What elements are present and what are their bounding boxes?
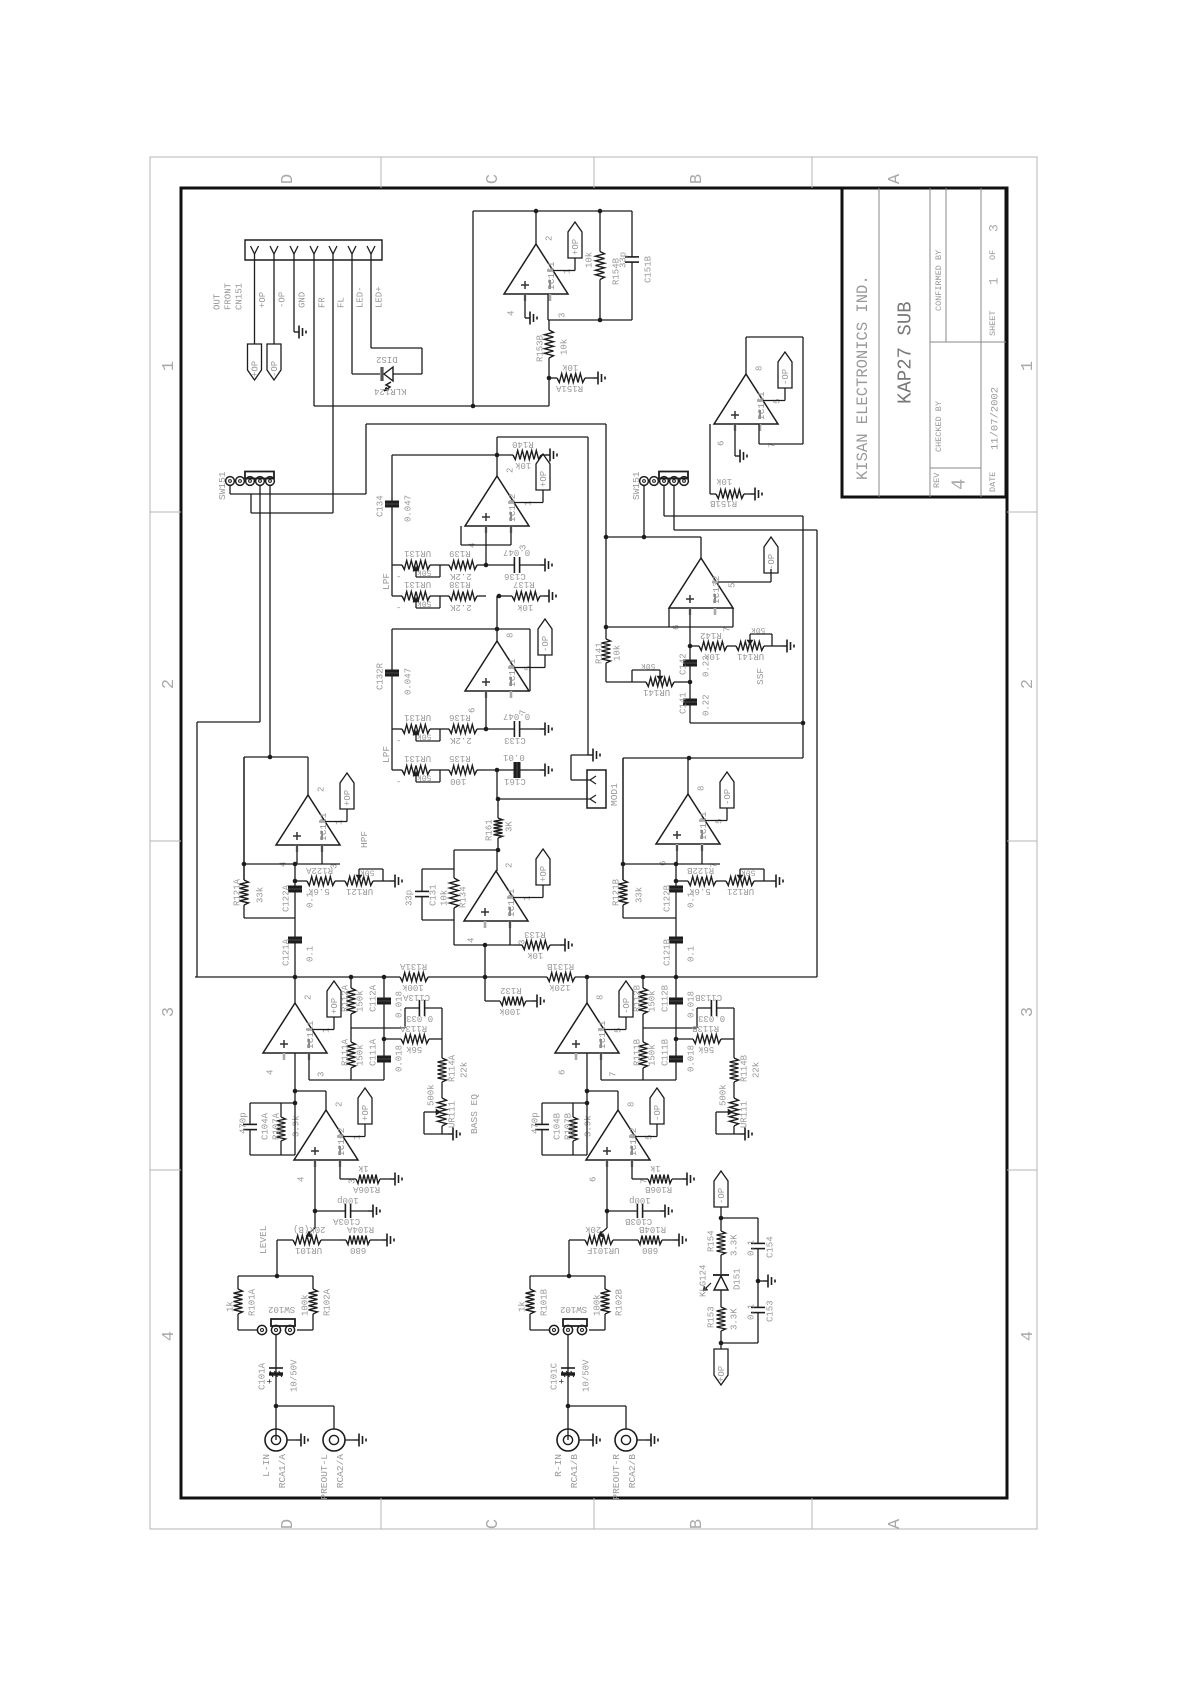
svg-text:100k: 100k — [301, 1294, 311, 1316]
svg-text:UR131: UR131 — [404, 753, 431, 763]
svg-text:2: 2 — [160, 679, 179, 689]
junction — [642, 535, 647, 540]
svg-text:LPF: LPF — [381, 573, 392, 590]
svg-text:56k: 56k — [698, 1044, 714, 1054]
pin — [290, 246, 298, 254]
svg-text:+OP: +OP — [330, 998, 340, 1014]
svg-text:C112A: C112A — [369, 984, 379, 1012]
wire — [571, 779, 587, 781]
svg-text:C: C — [484, 174, 503, 184]
resistor R113A 56k — [384, 1038, 401, 1040]
svg-text:-OP: -OP — [541, 636, 551, 652]
connector R-IN RCA1/B — [557, 1429, 579, 1451]
svg-text:+OP: +OP — [258, 292, 268, 308]
capacitor C111A 0.018 — [383, 1039, 385, 1056]
wire — [601, 1079, 676, 1081]
wire — [510, 526, 512, 545]
svg-text:RCA2/B: RCA2/B — [627, 1454, 638, 1489]
resistor — [622, 758, 624, 880]
svg-text:10k: 10k — [560, 339, 570, 355]
svg-text:C121A: C121A — [282, 938, 292, 966]
wire — [623, 917, 676, 919]
ground — [390, 880, 395, 882]
svg-text:8: 8 — [596, 995, 606, 1000]
wire — [351, 1027, 405, 1029]
wire — [339, 1160, 341, 1179]
wire — [383, 880, 390, 882]
wire — [668, 608, 670, 627]
wire — [350, 1027, 352, 1029]
svg-text:D151: D151 — [733, 1268, 743, 1290]
wire — [625, 1406, 627, 1429]
wire — [498, 798, 587, 800]
wire — [586, 1103, 588, 1155]
svg-text:R135: R135 — [449, 753, 471, 763]
capacitor C112B 0.018 — [675, 977, 677, 998]
wire — [606, 626, 733, 628]
svg-text:-OP: -OP — [622, 998, 632, 1014]
resistor R106A 1k — [340, 1178, 356, 1180]
svg-text:5: 5 — [715, 819, 725, 824]
wire — [391, 729, 393, 770]
svg-text:5: 5 — [773, 399, 783, 404]
wire — [709, 424, 711, 494]
svg-text:R133: R133 — [524, 929, 546, 939]
wire — [542, 490, 544, 503]
svg-text:-: - — [396, 776, 401, 786]
svg-text:UR111: UR111 — [448, 1101, 458, 1128]
potentiometer UR131 50k — [402, 592, 430, 601]
wire — [243, 757, 245, 880]
svg-text:1k: 1k — [518, 1301, 528, 1312]
svg-text:C113A: C113A — [402, 992, 430, 1002]
wire — [296, 845, 298, 864]
svg-text:LED+: LED+ — [375, 286, 385, 308]
junction — [495, 627, 500, 632]
svg-text:KLG124: KLG124 — [699, 1265, 709, 1297]
wire — [440, 769, 447, 771]
svg-text:C154: C154 — [766, 1236, 776, 1258]
resistor R151A 10k — [549, 377, 557, 379]
junction — [756, 1279, 761, 1284]
svg-text:B: B — [688, 174, 707, 184]
capacitor C101A 10/50V electrolytic — [275, 1365, 277, 1440]
wire — [307, 757, 309, 795]
svg-text:4: 4 — [467, 938, 477, 943]
capacitor — [757, 1218, 759, 1243]
svg-text:R102B: R102B — [615, 1288, 625, 1316]
svg-text:3: 3 — [558, 313, 568, 318]
wire — [371, 347, 422, 349]
svg-text:IC151: IC151 — [546, 261, 557, 290]
svg-text:150k: 150k — [356, 1044, 366, 1066]
resistor R106B 1k — [632, 1178, 648, 1180]
svg-text:3.3K: 3.3K — [730, 1308, 740, 1330]
op-amp IC132 — [669, 558, 733, 608]
svg-text:RCA2/A: RCA2/A — [335, 1454, 346, 1489]
wire — [637, 1439, 646, 1441]
wire — [230, 493, 366, 495]
resistor R161 3K — [497, 799, 499, 818]
junction — [275, 1274, 280, 1279]
svg-text:C131: C131 — [429, 884, 439, 906]
switch SW151 — [226, 477, 235, 486]
svg-text:R101B: R101B — [540, 1288, 550, 1316]
wire — [295, 1090, 326, 1092]
wire — [763, 400, 785, 402]
svg-text:2.2K: 2.2K — [449, 602, 471, 612]
wire — [453, 920, 455, 945]
wire — [370, 260, 372, 348]
wire — [404, 1008, 406, 1028]
svg-text:R113A: R113A — [399, 1023, 427, 1033]
svg-text:2: 2 — [1019, 679, 1038, 689]
resistor — [720, 1224, 722, 1231]
svg-text:680: 680 — [350, 1245, 366, 1255]
resistor R140 10k — [511, 454, 513, 456]
ground — [593, 377, 598, 379]
capacitor C101C 10/50V electrolytic — [567, 1365, 569, 1440]
wire — [259, 485, 261, 722]
LED D151 KLG124 — [713, 1274, 729, 1276]
wire — [428, 976, 547, 978]
svg-text:SW102: SW102 — [268, 1304, 295, 1314]
wire — [229, 485, 231, 494]
capacitor C103A 100p — [315, 1210, 345, 1212]
svg-text:150k: 150k — [648, 1044, 658, 1066]
wire — [589, 1329, 605, 1331]
resistor R101B 1k — [529, 1276, 531, 1289]
ground — [735, 455, 740, 457]
wire — [485, 526, 487, 565]
wire — [496, 596, 498, 641]
junction — [293, 1101, 298, 1106]
wire — [251, 512, 333, 514]
wire — [701, 845, 703, 864]
svg-text:2: 2 — [505, 863, 515, 868]
junction — [688, 644, 693, 649]
svg-text:IC131: IC131 — [506, 888, 517, 917]
wire — [314, 405, 549, 407]
wire — [764, 880, 771, 882]
svg-text:5: 5 — [728, 583, 738, 588]
capacitor — [689, 646, 691, 660]
ground — [540, 728, 545, 730]
junction — [268, 755, 273, 760]
capacitor C121B — [675, 918, 677, 937]
potentiometer UR101 20k — [309, 1228, 315, 1233]
svg-text:1: 1 — [563, 269, 573, 274]
wire — [720, 1207, 722, 1224]
svg-text:UR121: UR121 — [727, 886, 754, 896]
svg-text:2.2K: 2.2K — [449, 735, 471, 745]
pin — [270, 246, 278, 254]
ground — [646, 1439, 651, 1441]
svg-text:C111B: C111B — [661, 1038, 671, 1066]
svg-text:OF: OF — [988, 250, 998, 260]
capacitor — [757, 1281, 759, 1307]
wire — [542, 1154, 587, 1156]
svg-text:1: 1 — [1019, 361, 1038, 371]
junction — [585, 1101, 590, 1106]
svg-text:R151A: R151A — [555, 383, 583, 393]
svg-text:5: 5 — [645, 1135, 655, 1140]
svg-text:R134: R134 — [459, 886, 469, 908]
svg-text:50k: 50k — [417, 773, 432, 782]
resistor R113B 56k — [676, 1038, 693, 1040]
svg-text:0.047: 0.047 — [503, 711, 530, 721]
svg-text:1: 1 — [353, 1135, 363, 1140]
svg-text:1: 1 — [524, 501, 534, 506]
svg-text:0.033: 0.033 — [698, 1013, 725, 1023]
resistor R138 2.2K — [447, 595, 449, 597]
svg-text:-OP: -OP — [653, 1105, 663, 1121]
wire — [547, 294, 549, 320]
svg-text:5.6k: 5.6k — [308, 886, 330, 896]
svg-text:UR131: UR131 — [404, 712, 431, 722]
ground — [682, 1178, 687, 1180]
resistor R111B 150k — [642, 1028, 644, 1042]
connector PREOUT-L RCA2/A — [323, 1429, 345, 1451]
resistor — [548, 320, 550, 330]
wire — [276, 1405, 334, 1407]
ground — [390, 1178, 395, 1180]
svg-text:A: A — [886, 173, 905, 184]
svg-text:0.018: 0.018 — [687, 991, 697, 1018]
wire — [496, 437, 498, 476]
wire — [294, 1053, 296, 1103]
wire — [485, 691, 487, 729]
wire — [733, 1039, 735, 1050]
wire — [325, 821, 347, 823]
wire — [758, 1280, 763, 1282]
wire — [276, 1240, 278, 1276]
wire — [712, 581, 718, 584]
svg-text:C104B: C104B — [553, 1112, 563, 1140]
svg-text:R136: R136 — [449, 712, 471, 722]
capacitor — [421, 869, 423, 891]
svg-text:SSF: SSF — [755, 668, 766, 685]
svg-text:R-IN: R-IN — [553, 1454, 564, 1477]
svg-text:5.6k: 5.6k — [689, 886, 711, 896]
wire — [802, 337, 804, 444]
svg-text:LEVEL: LEVEL — [258, 1225, 269, 1254]
wire — [690, 722, 803, 724]
svg-text:150k: 150k — [648, 990, 658, 1012]
svg-text:0.1: 0.1 — [306, 946, 316, 962]
svg-text:REV: REV — [932, 472, 942, 488]
wire — [718, 581, 771, 583]
svg-text:10k: 10k — [527, 950, 543, 960]
wire — [244, 863, 340, 865]
resistor R104B 680 — [632, 1239, 638, 1241]
wire — [535, 211, 537, 244]
pin — [251, 246, 259, 254]
wire — [568, 1240, 570, 1276]
wire — [568, 1405, 626, 1407]
resistor R114A 22k — [441, 1050, 443, 1058]
potentiometer UR141 — [646, 678, 674, 687]
svg-text:-: - — [396, 602, 401, 612]
wire — [460, 526, 462, 545]
wire — [392, 628, 530, 630]
svg-text:UR131: UR131 — [404, 579, 431, 589]
title block — [842, 188, 1006, 497]
svg-text:4: 4 — [160, 1331, 179, 1341]
svg-text:3: 3 — [317, 1072, 327, 1077]
svg-text:C161: C161 — [504, 776, 526, 786]
svg-text:IC121: IC121 — [698, 811, 709, 840]
svg-text:33p: 33p — [619, 252, 629, 268]
svg-text:RCA1/B: RCA1/B — [569, 1454, 580, 1489]
junction — [484, 727, 489, 732]
svg-text:UR141: UR141 — [737, 651, 764, 661]
svg-text:+OP: +OP — [361, 1105, 371, 1121]
resistor — [720, 1303, 722, 1307]
capacitor C133 0.047 — [486, 728, 514, 730]
junction — [719, 1216, 724, 1221]
potentiometer UR111 500k — [438, 1098, 447, 1126]
capacitor C104A 470p — [249, 1103, 251, 1124]
svg-text:KLR124: KLR124 — [374, 386, 406, 396]
junction — [801, 721, 806, 726]
capacitor C132R 0.047 — [391, 629, 393, 670]
wire — [321, 845, 323, 864]
wire — [197, 721, 260, 723]
resistor — [243, 757, 245, 880]
wire — [530, 1329, 549, 1331]
svg-text:C141: C141 — [679, 692, 689, 714]
wire — [758, 424, 760, 444]
wire — [454, 944, 514, 946]
junction — [534, 209, 539, 214]
op-amp IC121 — [656, 794, 720, 844]
svg-text:R101A: R101A — [248, 1288, 258, 1316]
resistor R114B 22k — [733, 1050, 735, 1058]
ground — [296, 1439, 301, 1441]
wire — [346, 809, 348, 822]
capacitor C122A 0.1 — [294, 864, 296, 886]
svg-text:SW102: SW102 — [560, 1304, 587, 1314]
svg-text:680: 680 — [642, 1245, 658, 1255]
svg-text:IC151: IC151 — [756, 391, 767, 420]
svg-text:50k: 50k — [360, 868, 375, 877]
svg-text:C112B: C112B — [661, 984, 671, 1012]
svg-text:C113B: C113B — [694, 992, 722, 1002]
junction — [598, 318, 603, 323]
svg-text:1k: 1k — [650, 1163, 661, 1173]
ground — [544, 595, 549, 597]
svg-text:4: 4 — [949, 479, 971, 490]
potentiometer UR111 500k — [730, 1098, 739, 1126]
capacitor C134 0.047 — [391, 455, 393, 501]
ground — [545, 454, 550, 456]
wire — [606, 1160, 608, 1228]
switch SW102 — [549, 1325, 558, 1334]
svg-text:R111B: R111B — [633, 1038, 643, 1066]
wire — [631, 1160, 633, 1179]
wire — [514, 502, 543, 504]
svg-text:+OP: +OP — [571, 239, 581, 255]
wire — [570, 755, 572, 780]
svg-text:+OP: +OP — [539, 866, 549, 882]
svg-text:2: 2 — [304, 995, 314, 1000]
svg-text:C122B: C122B — [663, 884, 673, 912]
svg-text:10/50V: 10/50V — [582, 1359, 592, 1392]
wire — [600, 1053, 602, 1080]
op-amp IC131 — [465, 641, 529, 691]
wire — [656, 1124, 658, 1137]
junction — [349, 975, 354, 980]
wire — [497, 436, 588, 438]
svg-text:PREOUT-L: PREOUT-L — [319, 1454, 330, 1500]
wire — [586, 1053, 588, 1103]
capacitor C161 0.01 — [486, 769, 514, 771]
junction — [547, 376, 552, 381]
wire — [553, 270, 575, 272]
svg-text:UR141: UR141 — [643, 687, 670, 697]
wire — [442, 1133, 448, 1135]
junction — [293, 862, 298, 867]
svg-text:0.1: 0.1 — [747, 1304, 757, 1320]
wire — [293, 260, 295, 332]
svg-text:R121B: R121B — [612, 878, 622, 906]
svg-text:IC102: IC102 — [628, 1127, 639, 1156]
potentiometer UR131 50k — [402, 561, 430, 570]
wire — [745, 337, 747, 374]
svg-text:R113B: R113B — [691, 1023, 719, 1033]
op-amp IC111 — [555, 1003, 619, 1053]
svg-text:100: 100 — [450, 776, 466, 786]
junction — [382, 1037, 387, 1042]
ground — [771, 880, 776, 882]
wire — [366, 423, 606, 425]
wire — [392, 595, 402, 597]
svg-text:R106A: R106A — [352, 1184, 380, 1194]
svg-text:R137: R137 — [513, 579, 535, 589]
junction — [293, 1089, 298, 1094]
svg-text:20k(B): 20k(B) — [293, 1224, 325, 1234]
wire — [392, 564, 402, 566]
wire — [422, 919, 454, 921]
wire — [297, 1329, 313, 1331]
wire — [275, 1334, 277, 1365]
wire — [732, 608, 734, 627]
junction — [674, 879, 679, 884]
wire — [784, 388, 786, 401]
svg-text:R104A: R104A — [346, 1224, 374, 1234]
svg-text:D: D — [279, 174, 298, 184]
junction — [293, 975, 298, 980]
capacitor C113A 0.033 — [405, 1007, 419, 1009]
svg-text:KISAN ELECTRONICS IND.: KISAN ELECTRONICS IND. — [854, 275, 872, 480]
wire — [529, 629, 531, 691]
svg-text:R138: R138 — [449, 579, 471, 589]
junction — [674, 862, 679, 867]
svg-text:10k: 10k — [562, 362, 578, 372]
potentiometer UR121 50k — [726, 877, 754, 886]
resistor R101A 1k — [237, 1276, 239, 1289]
svg-text:0.047: 0.047 — [404, 668, 414, 695]
svg-text:100p: 100p — [629, 1195, 651, 1205]
svg-text:IC111: IC111 — [305, 1020, 316, 1049]
wire — [440, 595, 447, 597]
resistor R139 2.2K — [447, 564, 449, 566]
resistor R134 10k inline — [453, 850, 455, 878]
wire — [734, 1133, 740, 1135]
svg-text:R139: R139 — [449, 548, 471, 558]
wire — [544, 655, 546, 668]
